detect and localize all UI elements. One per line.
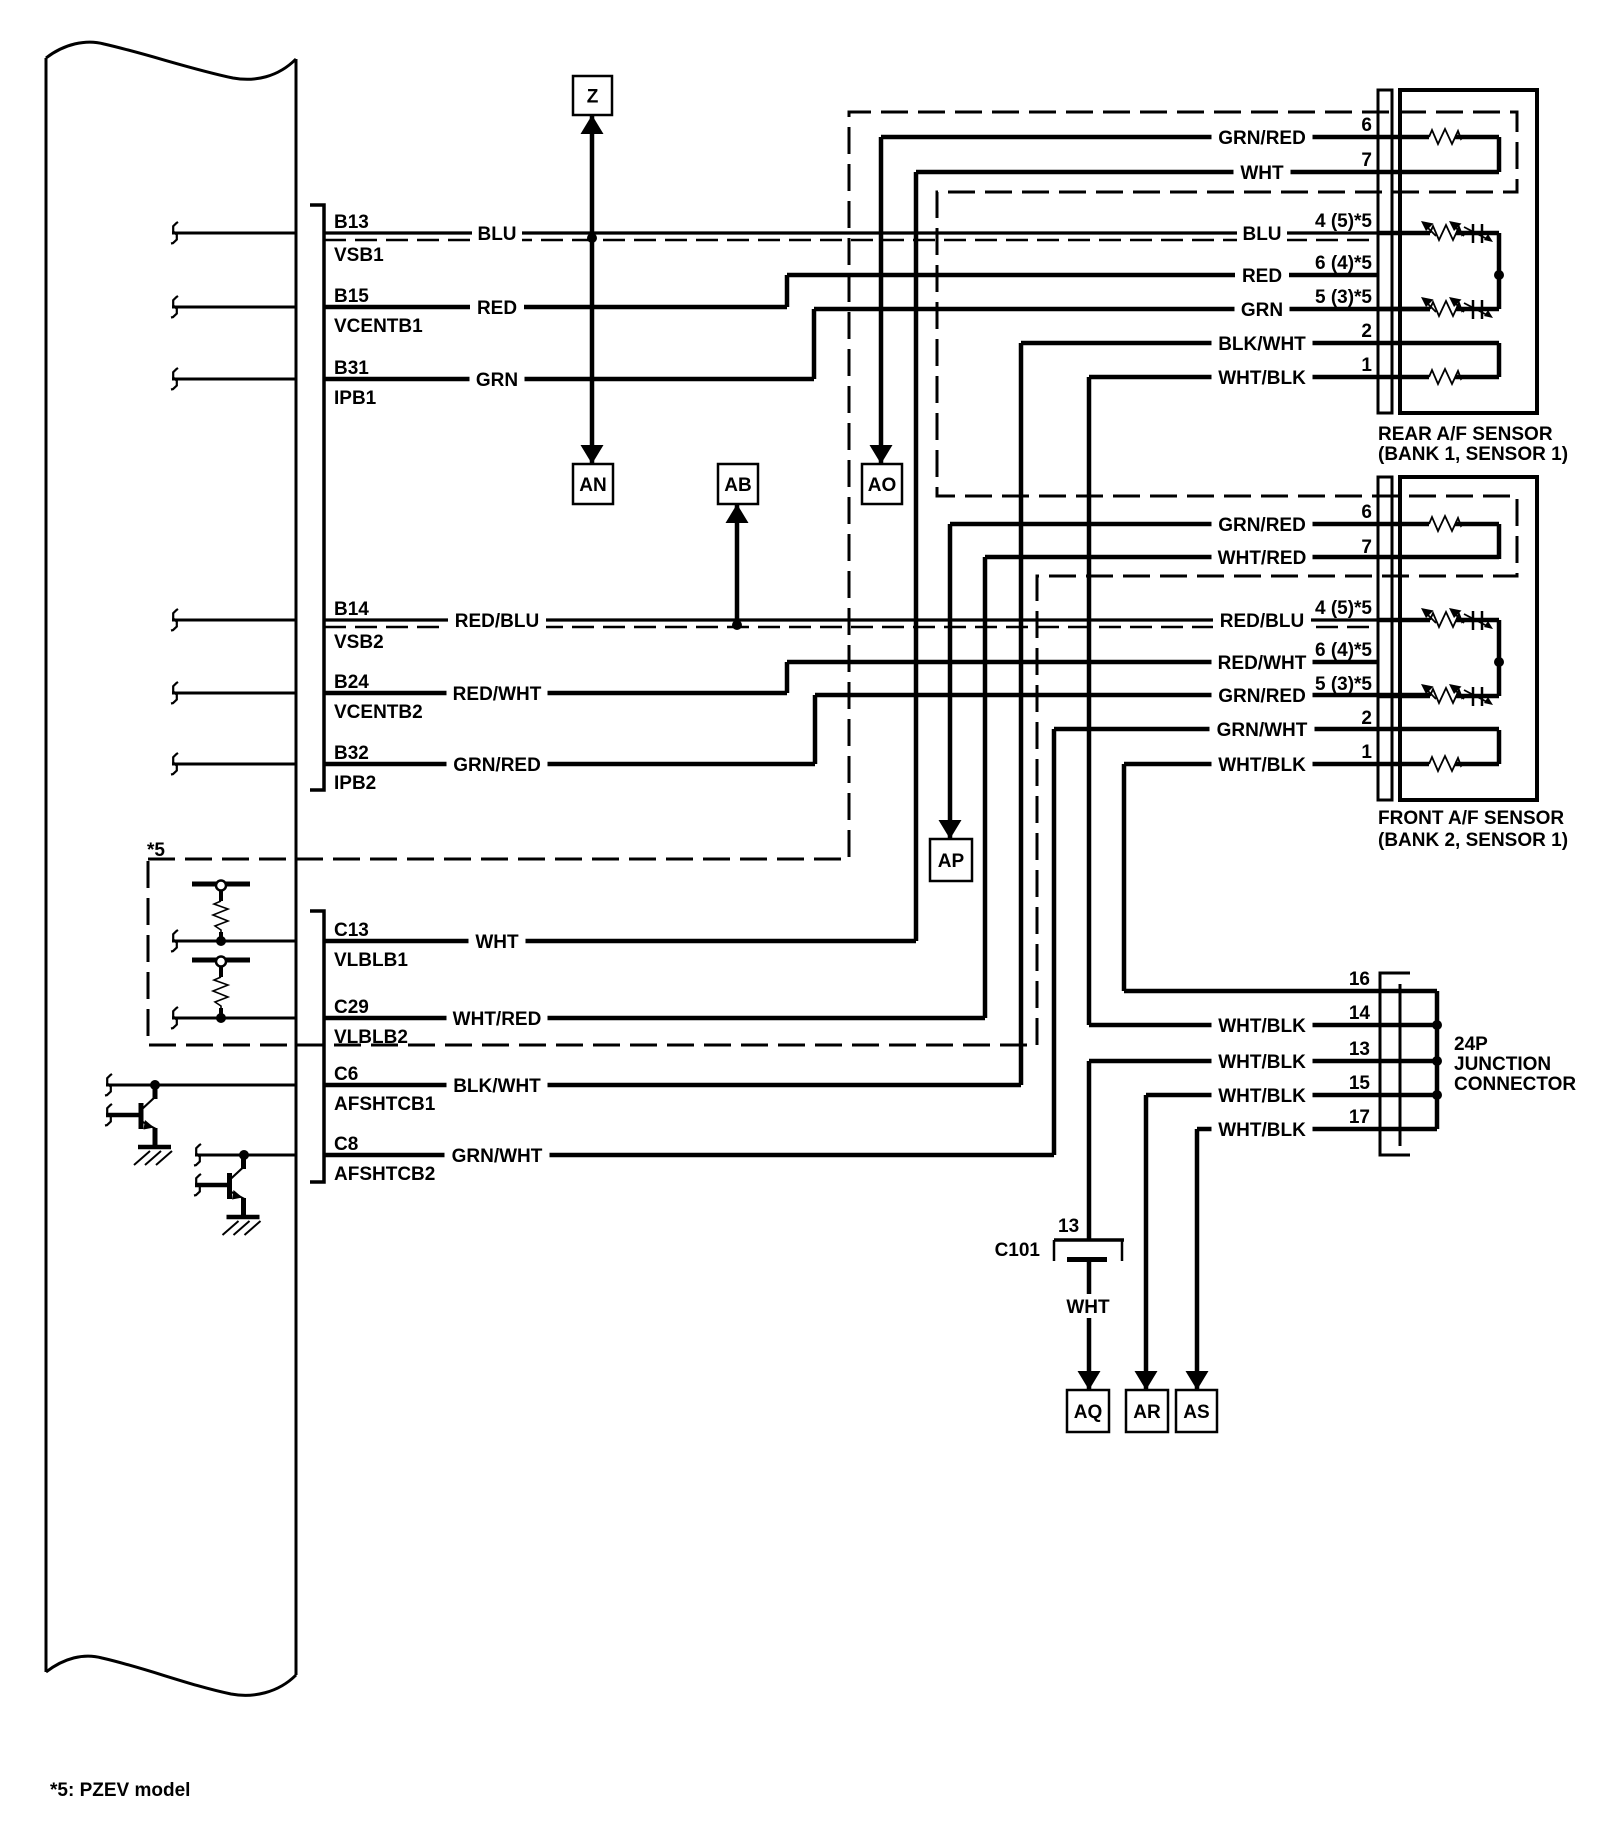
junction dot C8/Q2	[239, 1150, 249, 1160]
svg-text:16: 16	[1349, 969, 1370, 990]
wire B13 BLU to rear sensor pin4	[324, 231, 1430, 234]
front sensor cell row pin5	[1378, 694, 1430, 699]
svg-text:*5: *5	[147, 840, 165, 861]
ECM pin C29 VLBLB2 stub	[172, 1017, 296, 1020]
svg-text:B13: B13	[334, 212, 369, 233]
label WHT	[1234, 160, 1291, 184]
front sensor cell loop vertical	[1497, 620, 1502, 696]
svg-text:VLBLB1: VLBLB1	[334, 950, 408, 971]
junction dot on BLU shield	[587, 233, 597, 243]
svg-text:Z: Z	[587, 87, 599, 108]
svg-text:RED/WHT: RED/WHT	[453, 684, 542, 705]
svg-text:WHT/RED: WHT/RED	[453, 1009, 542, 1030]
label WHT below C101	[1060, 1294, 1117, 1318]
label BLU	[1237, 221, 1287, 245]
svg-text:WHT: WHT	[1066, 1297, 1110, 1318]
svg-text:BLK/WHT: BLK/WHT	[453, 1076, 541, 1097]
svg-text:IPB1: IPB1	[334, 388, 377, 409]
24P bus junction dot	[1432, 1056, 1442, 1066]
svg-text:*5: PZEV model: *5: PZEV model	[50, 1780, 190, 1801]
svg-text:AN: AN	[579, 475, 606, 496]
junction dot C6/Q1	[150, 1080, 160, 1090]
wire C13 WHT to rear sensor pin7	[324, 939, 916, 944]
pull-up resistor 2 (*5)	[192, 958, 250, 963]
wire front sensor pin6 GRN/RED to AP	[950, 522, 1378, 527]
wire C101 WHT to AQ	[1087, 1261, 1092, 1390]
svg-text:AS: AS	[1183, 1402, 1209, 1423]
label WHT/BLK	[1212, 1049, 1313, 1073]
label GRN/RED	[1212, 125, 1313, 149]
24P junction connector bus	[1435, 991, 1440, 1129]
reference box AS	[1176, 1390, 1217, 1432]
svg-text:RED/WHT: RED/WHT	[1218, 653, 1307, 674]
svg-text:RED: RED	[1242, 266, 1282, 287]
svg-text:C13: C13	[334, 920, 369, 941]
svg-text:C29: C29	[334, 997, 369, 1018]
label WHT/RED	[447, 1006, 548, 1030]
24P pin wire y=1129	[1400, 1127, 1437, 1132]
svg-text:B32: B32	[334, 743, 369, 764]
svg-text:JUNCTION: JUNCTION	[1454, 1054, 1551, 1075]
label GRN/RED	[1212, 683, 1313, 707]
svg-text:B31: B31	[334, 358, 369, 379]
reference box AR	[1126, 1390, 1168, 1432]
svg-text:6 (4)*5: 6 (4)*5	[1315, 253, 1372, 274]
svg-text:(BANK 1, SENSOR 1): (BANK 1, SENSOR 1)	[1378, 444, 1568, 465]
front sensor heater resistor top loop	[1378, 522, 1429, 527]
label WHT	[469, 929, 526, 953]
svg-text:GRN/RED: GRN/RED	[1218, 515, 1306, 536]
drain wire Z to AN with shield tap	[590, 115, 595, 464]
ECM pin C8 AFSHTCB2 stub	[195, 1154, 296, 1157]
wire B32 GRN/RED	[324, 762, 815, 767]
rear sensor cell row pin4	[1378, 231, 1430, 236]
svg-text:VSB2: VSB2	[334, 632, 384, 653]
arrow into AP	[939, 820, 962, 839]
svg-text:GRN/WHT: GRN/WHT	[1217, 720, 1308, 741]
transistor Q1 AFSHTCB1	[134, 1085, 172, 1165]
ECM pin B32 IPB2 stub	[172, 763, 296, 766]
arrow into AQ	[1078, 1371, 1101, 1390]
ECM connector bracket B group	[310, 205, 324, 790]
front A/F sensor body	[1400, 477, 1537, 800]
svg-text:GRN: GRN	[1241, 300, 1283, 321]
rear sensor cell row pin5	[1378, 307, 1430, 312]
svg-text:WHT/BLK: WHT/BLK	[1218, 1086, 1306, 1107]
svg-text:WHT/BLK: WHT/BLK	[1218, 1016, 1306, 1037]
ECM pin C13 VLBLB1 stub	[172, 940, 296, 943]
arrow into AR	[1135, 1371, 1158, 1390]
svg-text:GRN: GRN	[476, 370, 518, 391]
wire C8 GRN/WHT to front sensor pin2	[324, 1153, 1054, 1158]
label WHT/BLK	[1212, 1117, 1313, 1141]
24P junction connector bracket	[1380, 973, 1410, 1155]
label GRN/RED	[447, 752, 548, 776]
wire C29 WHT/RED to front sensor pin7	[324, 1016, 985, 1021]
wire front sensor pin1 WHT/BLK to 24P pin16	[1124, 762, 1378, 767]
svg-text:BLU: BLU	[477, 224, 516, 245]
svg-text:6: 6	[1361, 502, 1372, 523]
reference box AB	[718, 464, 758, 504]
svg-text:(BANK 2, SENSOR 1): (BANK 2, SENSOR 1)	[1378, 830, 1568, 851]
svg-text:WHT/BLK: WHT/BLK	[1218, 1052, 1306, 1073]
svg-text:WHT/BLK: WHT/BLK	[1218, 1120, 1306, 1141]
svg-text:13: 13	[1058, 1216, 1079, 1237]
wire 24P pin17 WHT/BLK to AS	[1197, 1127, 1400, 1132]
label BLK/WHT	[447, 1073, 548, 1097]
label RED/WHT	[1212, 650, 1313, 674]
wire rear sensor pin1 WHT/BLK to 24P pin14	[1089, 375, 1378, 380]
label GRN	[1235, 297, 1290, 321]
svg-text:AB: AB	[724, 475, 751, 496]
svg-text:GRN/RED: GRN/RED	[1218, 686, 1306, 707]
connector C101	[1054, 1238, 1124, 1242]
wire rear sensor pin6 GRN/RED to AO	[881, 135, 1378, 140]
svg-text:B24: B24	[334, 672, 369, 693]
rear A/F sensor connector strip	[1378, 90, 1392, 413]
svg-text:4 (5)*5: 4 (5)*5	[1315, 598, 1372, 619]
reference box AP	[930, 839, 972, 881]
pull-up resistor 1 (*5)	[192, 882, 250, 887]
ECM connector bracket C group	[310, 911, 324, 1182]
svg-text:BLK/WHT: BLK/WHT	[1218, 334, 1306, 355]
svg-text:AO: AO	[868, 475, 897, 496]
label RED	[470, 295, 524, 319]
svg-text:15: 15	[1349, 1073, 1371, 1094]
reference box AN	[573, 464, 613, 504]
label RED/BLU	[1213, 608, 1311, 632]
rear A/F sensor body	[1400, 90, 1537, 413]
svg-text:7: 7	[1361, 537, 1372, 558]
wire 24P pin13 WHT/BLK to C101	[1089, 1059, 1400, 1064]
svg-text:5 (3)*5: 5 (3)*5	[1315, 674, 1372, 695]
24P pin wire y=1095	[1400, 1093, 1437, 1098]
rear sensor bottom resistor loop	[1497, 343, 1502, 377]
svg-text:4 (5)*5: 4 (5)*5	[1315, 211, 1372, 232]
Q1 base stub	[106, 1113, 141, 1118]
reference box Z	[573, 76, 612, 115]
ECM pin B15 VCENTB1 stub	[172, 306, 296, 309]
wire B31 GRN	[324, 377, 814, 382]
svg-text:VSB1: VSB1	[334, 245, 384, 266]
wire C6 BLK/WHT to rear sensor pin2	[324, 1083, 1021, 1088]
label GRN	[470, 367, 525, 391]
svg-text:6 (4)*5: 6 (4)*5	[1315, 640, 1372, 661]
label RED/WHT	[447, 681, 548, 705]
svg-text:AP: AP	[938, 851, 965, 872]
svg-text:REAR A/F SENSOR: REAR A/F SENSOR	[1378, 424, 1553, 445]
ECM pin B31 IPB1 stub	[172, 378, 296, 381]
svg-text:CONNECTOR: CONNECTOR	[1454, 1074, 1576, 1095]
svg-text:IPB2: IPB2	[334, 773, 376, 794]
svg-text:WHT: WHT	[1240, 163, 1284, 184]
svg-text:RED: RED	[477, 298, 517, 319]
24P pin wire y=991	[1400, 989, 1437, 994]
dashed shield outline (*5 / twisted pair shields)	[148, 112, 1517, 1045]
label BLK/WHT	[1212, 331, 1313, 355]
label WHT/BLK	[1212, 1013, 1313, 1037]
svg-text:WHT/BLK: WHT/BLK	[1218, 755, 1306, 776]
svg-text:2: 2	[1361, 708, 1372, 729]
ECM pin B24 VCENTB2 stub	[172, 692, 296, 695]
arrow into AO	[870, 445, 893, 464]
svg-text:AFSHTCB2: AFSHTCB2	[334, 1164, 435, 1185]
svg-text:7: 7	[1361, 150, 1372, 171]
label GRN/WHT	[1210, 717, 1315, 741]
rear sensor heater resistor top loop	[1378, 135, 1429, 140]
front sensor bottom resistor loop	[1497, 730, 1502, 764]
svg-text:B14: B14	[334, 599, 369, 620]
svg-text:AQ: AQ	[1074, 1402, 1103, 1423]
svg-text:6: 6	[1361, 115, 1372, 136]
svg-text:1: 1	[1361, 742, 1372, 763]
svg-text:13: 13	[1349, 1039, 1370, 1060]
label GRN/RED	[1212, 512, 1313, 536]
label BLU	[472, 221, 522, 245]
label WHT/BLK	[1212, 752, 1313, 776]
24P pin wire y=1025	[1400, 1023, 1437, 1028]
svg-text:5 (3)*5: 5 (3)*5	[1315, 287, 1372, 308]
Q2 base stub	[195, 1183, 230, 1188]
label RED	[1235, 263, 1289, 287]
ECM pin B13 VSB1 stub	[172, 232, 296, 235]
drain wire AB with shield tap	[735, 504, 740, 625]
label GRN/WHT	[445, 1143, 550, 1167]
svg-text:RED/BLU: RED/BLU	[1220, 611, 1304, 632]
wire 24P pin15 WHT/BLK to AR	[1146, 1093, 1400, 1098]
svg-text:14: 14	[1349, 1003, 1371, 1024]
svg-text:GRN/RED: GRN/RED	[453, 755, 541, 776]
svg-text:GRN/WHT: GRN/WHT	[452, 1146, 543, 1167]
label RED/BLU	[448, 608, 546, 632]
24P bus junction dot	[1432, 1020, 1442, 1030]
svg-text:C8: C8	[334, 1134, 358, 1155]
svg-text:B15: B15	[334, 286, 369, 307]
wire B14 RED/BLU to front sensor pin4	[324, 618, 1430, 621]
svg-text:AFSHTCB1: AFSHTCB1	[334, 1094, 436, 1115]
svg-text:17: 17	[1349, 1107, 1370, 1128]
junction dot on RED/BLU shield	[732, 620, 742, 630]
svg-text:WHT/BLK: WHT/BLK	[1218, 368, 1306, 389]
svg-text:BLU: BLU	[1242, 224, 1281, 245]
svg-text:2: 2	[1361, 321, 1372, 342]
shield dashed line for RED/BLU wire	[324, 626, 1378, 629]
shield dashed line for BLU wire	[324, 239, 1378, 242]
rear sensor cell loop vertical	[1497, 233, 1502, 309]
svg-text:VCENTB1: VCENTB1	[334, 316, 423, 337]
24P junction connector bar	[1399, 984, 1402, 1146]
svg-text:C101: C101	[995, 1240, 1041, 1261]
ECM pin B14 VSB2 stub	[172, 619, 296, 622]
svg-text:1: 1	[1361, 355, 1372, 376]
transistor Q2 AFSHTCB2	[223, 1155, 261, 1235]
reference box AQ	[1067, 1390, 1109, 1432]
24P bus junction dot	[1432, 1090, 1442, 1100]
svg-text:RED/BLU: RED/BLU	[455, 611, 539, 632]
arrow into AS	[1186, 1371, 1209, 1390]
ECM pin C6 AFSHTCB1 stub	[106, 1084, 296, 1087]
24P pin wire y=1061	[1400, 1059, 1437, 1064]
svg-text:VCENTB2: VCENTB2	[334, 702, 423, 723]
svg-text:GRN/RED: GRN/RED	[1218, 128, 1306, 149]
svg-text:WHT/RED: WHT/RED	[1218, 548, 1307, 569]
label WHT/RED	[1212, 545, 1313, 569]
wire B24 RED/WHT	[324, 691, 787, 696]
ECM body outline (torn-paper edges)	[46, 42, 296, 79]
svg-text:AR: AR	[1133, 1402, 1161, 1423]
wire B15 RED	[324, 305, 787, 310]
svg-text:FRONT A/F SENSOR: FRONT A/F SENSOR	[1378, 808, 1564, 829]
label WHT/BLK	[1212, 365, 1313, 389]
svg-text:WHT: WHT	[475, 932, 519, 953]
label WHT/BLK	[1212, 1083, 1313, 1107]
svg-text:24P: 24P	[1454, 1034, 1488, 1055]
front sensor cell row pin4	[1378, 618, 1430, 623]
svg-text:C6: C6	[334, 1064, 358, 1085]
front A/F sensor connector strip	[1378, 477, 1392, 800]
reference box AO	[862, 464, 902, 504]
